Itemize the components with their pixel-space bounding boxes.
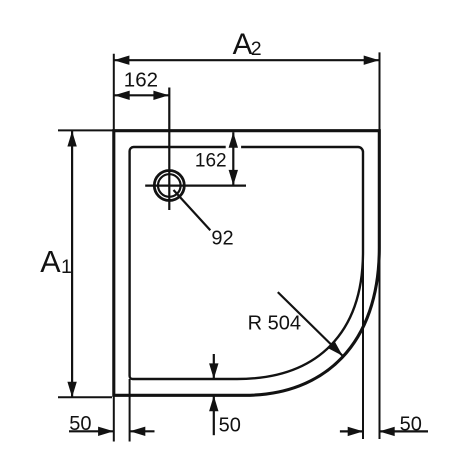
extension line A2 left (x=113.8 top) [113,54,115,130]
arrow 162 right [153,91,169,100]
leader line R 504 [278,292,343,356]
drain horizontal centerline [145,185,246,187]
svg-text:162: 162 [124,69,158,92]
arrow R504 [328,342,342,356]
tray outer outline [114,131,380,396]
dimension 50 bottom-right tails [340,430,363,432]
svg-text:R 504: R 504 [248,312,301,334]
tray inner rim line [130,147,363,379]
A1 extension tick bottom [58,396,112,398]
dimension A2 line [114,59,379,61]
arrow 50R pointing left [379,427,395,436]
svg-text:A: A [233,28,253,61]
leader line 92 [174,190,211,230]
svg-text:2: 2 [251,38,262,60]
dimension A1 line [71,131,73,397]
drain outer circle [154,171,184,201]
arrow A2 right [364,56,380,65]
dimension 50 bottom-left tails [69,430,113,432]
arrow A1 down [67,382,76,398]
extension line right (x=379.5 from above A2 dim down to bottom 50 dim) [379,52,381,439]
dimension 162 top line [114,94,169,96]
arrow 162 up [229,132,238,148]
extension line inner-right tangent (x=363) [362,260,364,439]
arrow 162 down [229,170,238,186]
svg-text:162: 162 [195,150,227,171]
arrow A2 left [114,56,129,65]
svg-text:50: 50 [69,413,91,435]
arrow A1 up [67,131,76,147]
arrow 50C pointing down [209,363,218,379]
A1 extension tick top [58,129,113,131]
arrow 50L pointing right [98,427,114,436]
svg-text:92: 92 [211,228,233,250]
gap in inner rim line at vertical dimension crossing [226,145,241,150]
svg-text:50: 50 [400,414,422,436]
extension line outer-left below tray (x=113.8) [113,395,115,441]
svg-text:50: 50 [219,414,241,436]
svg-text:A: A [40,245,61,279]
arrow 50R pointing right [348,427,364,436]
drain vertical centerline [168,88,170,211]
svg-text:1: 1 [61,256,72,278]
arrow 162 left [114,91,130,100]
arrow 50L pointing left [130,427,146,436]
dimension 50 center tails [213,354,215,379]
arrow 50C pointing up [209,396,218,412]
dimension 162 vertical line [232,132,234,185]
drain inner circle [158,174,181,197]
extension line inner-left below tray (x=129.6) [129,379,131,442]
